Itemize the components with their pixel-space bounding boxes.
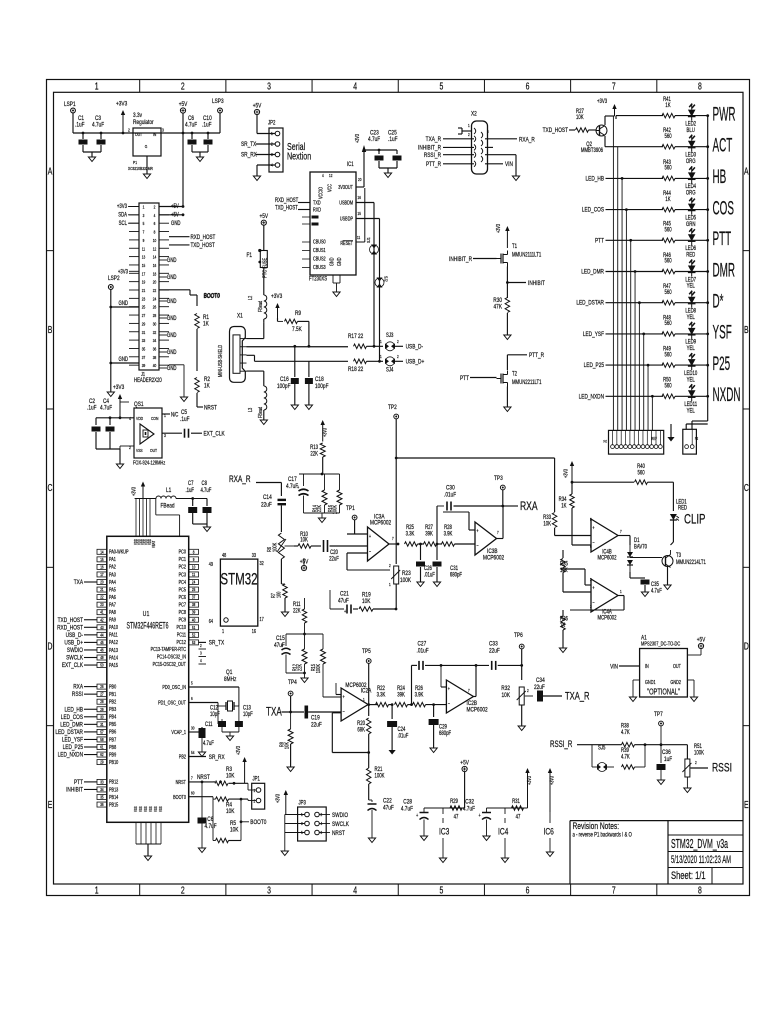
svg-text:TP4: TP4	[288, 679, 297, 686]
svg-text:+: +	[592, 585, 594, 591]
svg-text:SDA: SDA	[118, 212, 127, 219]
svg-text:39: 39	[142, 363, 145, 369]
svg-text:.1uF: .1uF	[75, 122, 85, 129]
svg-text:SR_RX: SR_RX	[209, 754, 225, 761]
svg-text:+3V3: +3V3	[116, 101, 127, 108]
svg-text:+: +	[297, 484, 299, 490]
svg-text:OUT: OUT	[150, 447, 157, 453]
svg-text:560: 560	[664, 133, 671, 140]
svg-text:C16: C16	[280, 376, 289, 383]
svg-text:TXA: TXA	[266, 706, 282, 719]
svg-text:LED_DMR: LED_DMR	[581, 269, 604, 276]
svg-text:INHIBIT: INHIBIT	[528, 280, 545, 287]
svg-text:PB12: PB12	[109, 779, 119, 785]
svg-text:21: 21	[142, 287, 145, 293]
svg-text:100K: 100K	[694, 750, 704, 757]
svg-text:IC2A: IC2A	[361, 688, 372, 695]
svg-text:58: 58	[100, 737, 103, 742]
svg-text:IC1: IC1	[347, 161, 354, 168]
svg-text:GND: GND	[336, 257, 342, 266]
svg-text:C: C	[48, 482, 53, 494]
svg-text:2: 2	[527, 689, 529, 694]
svg-text:PA1: PA1	[109, 557, 116, 563]
svg-text:T2: T2	[512, 371, 517, 378]
svg-text:PTT: PTT	[595, 238, 604, 245]
svg-text:8: 8	[698, 80, 702, 92]
svg-text:.1uF: .1uF	[186, 487, 195, 494]
svg-text:PC14-OSC32_IN: PC14-OSC32_IN	[157, 654, 186, 660]
svg-text:3: 3	[590, 605, 592, 610]
svg-text:PC3: PC3	[179, 572, 187, 578]
svg-text:D*: D*	[713, 291, 724, 312]
svg-text:40: 40	[192, 618, 195, 623]
svg-text:10K: 10K	[230, 827, 239, 834]
svg-text:10K: 10K	[226, 808, 235, 815]
svg-text:560: 560	[664, 383, 671, 390]
svg-text:MCP6002: MCP6002	[370, 520, 391, 527]
svg-text:2: 2	[389, 564, 391, 569]
svg-text:PB10: PB10	[109, 759, 119, 765]
svg-text:9: 9	[193, 557, 195, 562]
svg-text:.01uF: .01uF	[417, 648, 429, 655]
svg-text:29: 29	[142, 321, 145, 327]
svg-text:44: 44	[100, 633, 103, 638]
svg-text:NXDN: NXDN	[713, 385, 741, 406]
svg-text:L3: L3	[247, 407, 253, 412]
svg-text:SJ2: SJ2	[383, 276, 389, 282]
svg-text:ORG: ORG	[686, 158, 696, 165]
svg-text:3.3K: 3.3K	[377, 692, 386, 699]
svg-text:C33: C33	[489, 641, 498, 648]
svg-text:10pF: 10pF	[210, 711, 220, 718]
svg-text:36: 36	[153, 346, 156, 352]
svg-text:SJ3: SJ3	[386, 332, 393, 339]
svg-text:VSS: VSS	[144, 806, 149, 812]
svg-text:1: 1	[389, 583, 391, 588]
svg-text:21: 21	[100, 588, 103, 593]
svg-text:YEL: YEL	[687, 345, 695, 352]
svg-text:CBUS0: CBUS0	[313, 239, 326, 245]
svg-text:INHIBIT_R: INHIBIT_R	[418, 145, 441, 152]
svg-text:22uF: 22uF	[534, 684, 545, 691]
svg-text:20: 20	[153, 279, 156, 285]
svg-text:NRST: NRST	[176, 779, 186, 785]
svg-text:22K: 22K	[293, 608, 301, 615]
svg-text:10K: 10K	[543, 521, 551, 528]
svg-text:3V3OUT: 3V3OUT	[338, 184, 353, 190]
svg-text:.01uF: .01uF	[444, 492, 456, 499]
svg-text:B: B	[48, 324, 53, 336]
svg-text:FT230XS: FT230XS	[309, 276, 327, 283]
svg-text:VSS: VSS	[159, 806, 164, 812]
svg-text:VCCIO: VCCIO	[318, 187, 324, 199]
svg-text:BLU: BLU	[687, 127, 695, 134]
svg-text:4.7uF: 4.7uF	[92, 122, 104, 129]
svg-text:CBUS3: CBUS3	[313, 264, 326, 270]
svg-text:GND: GND	[167, 365, 177, 372]
svg-text:1: 1	[95, 884, 99, 896]
svg-text:4.7uF: 4.7uF	[185, 122, 197, 129]
svg-text:10K: 10K	[576, 114, 584, 121]
svg-text:Revision Notes:: Revision Notes:	[573, 821, 620, 831]
svg-text:PC9: PC9	[179, 617, 187, 623]
svg-text:USB_D-: USB_D-	[66, 632, 83, 639]
svg-text:C22: C22	[383, 798, 392, 805]
svg-text:3.9K: 3.9K	[444, 531, 453, 538]
svg-text:E: E	[744, 799, 749, 811]
svg-text:J2: J2	[603, 440, 608, 443]
svg-text:62: 62	[100, 753, 103, 758]
svg-text:+: +	[416, 812, 418, 818]
svg-text:LED_HB: LED_HB	[586, 176, 605, 183]
svg-text:7: 7	[392, 537, 394, 542]
svg-text:TXD: TXD	[313, 200, 321, 206]
svg-text:−: −	[592, 600, 594, 606]
svg-text:47uF: 47uF	[338, 598, 349, 605]
svg-text:12: 12	[153, 246, 156, 252]
svg-text:PA13: PA13	[109, 647, 118, 653]
svg-text:R31: R31	[512, 798, 520, 805]
svg-text:GND: GND	[171, 220, 181, 227]
svg-text:2: 2	[590, 578, 592, 583]
svg-text:30: 30	[100, 715, 103, 720]
svg-text:42: 42	[100, 618, 103, 623]
svg-text:10K: 10K	[284, 741, 291, 749]
svg-text:LED_P25: LED_P25	[63, 744, 84, 751]
svg-text:PTT_R: PTT_R	[426, 161, 441, 168]
svg-text:LED_DSTAR: LED_DSTAR	[576, 300, 604, 307]
svg-text:+: +	[281, 642, 283, 648]
svg-text:EXT_CLK: EXT_CLK	[62, 662, 83, 669]
svg-text:22: 22	[153, 287, 156, 293]
svg-text:PC7: PC7	[179, 602, 187, 608]
svg-text:LSP2: LSP2	[108, 275, 120, 282]
svg-text:27: 27	[100, 692, 103, 697]
svg-text:.1uF: .1uF	[180, 416, 190, 423]
svg-text:2: 2	[254, 799, 256, 804]
svg-text:2: 2	[181, 884, 185, 896]
svg-text:6: 6	[526, 884, 530, 896]
svg-text:1: 1	[254, 789, 256, 794]
svg-text:GND: GND	[167, 332, 177, 339]
svg-text:6: 6	[590, 545, 592, 550]
svg-text:5: 5	[439, 80, 443, 92]
svg-text:PC4: PC4	[179, 579, 187, 585]
svg-text:34: 34	[100, 787, 103, 792]
svg-text:PC1: PC1	[179, 557, 187, 563]
svg-text:G: G	[145, 143, 148, 149]
svg-text:+: +	[369, 533, 371, 539]
svg-text:8MHz: 8MHz	[224, 676, 236, 683]
svg-text:PD1_OSC_OUT: PD1_OSC_OUT	[158, 700, 186, 706]
svg-text:MCP6002: MCP6002	[483, 555, 504, 562]
svg-text:4: 4	[322, 174, 324, 179]
svg-text:X2: X2	[471, 111, 477, 118]
svg-text:20: 20	[100, 580, 103, 585]
svg-text:PA0-WKUP: PA0-WKUP	[109, 549, 129, 555]
svg-text:JP2: JP2	[268, 120, 275, 127]
svg-text:PB14: PB14	[109, 794, 119, 800]
svg-text:5: 5	[191, 681, 193, 686]
svg-text:.1uF: .1uF	[87, 405, 97, 412]
svg-text:PB2: PB2	[109, 699, 117, 705]
svg-text:68K: 68K	[357, 727, 365, 734]
svg-text:R32: R32	[501, 685, 510, 692]
svg-text:GND: GND	[167, 298, 177, 305]
svg-text:PTC FUSE: PTC FUSE	[262, 257, 269, 278]
svg-text:+3V3: +3V3	[235, 746, 241, 755]
svg-text:22K: 22K	[316, 504, 323, 512]
svg-text:HEADER2X20: HEADER2X20	[134, 377, 162, 384]
svg-text:2: 2	[397, 340, 399, 345]
svg-text:560: 560	[637, 470, 644, 477]
svg-text:LED_COS: LED_COS	[61, 714, 83, 721]
svg-text:560: 560	[664, 165, 671, 172]
svg-text:LED_P25: LED_P25	[584, 362, 605, 369]
svg-text:49: 49	[100, 656, 103, 661]
svg-text:16: 16	[252, 628, 257, 634]
svg-text:22K: 22K	[310, 451, 318, 458]
svg-text:3.3v: 3.3v	[133, 112, 142, 119]
svg-text:39K: 39K	[425, 531, 433, 538]
svg-text:+: +	[344, 608, 346, 614]
svg-text:CBUS1: CBUS1	[313, 247, 326, 253]
svg-text:+3V3: +3V3	[113, 384, 124, 391]
svg-text:+3V3: +3V3	[495, 224, 501, 233]
svg-text:SJ1: SJ1	[365, 237, 371, 243]
svg-text:TXA: TXA	[74, 579, 83, 586]
svg-text:SR_TX: SR_TX	[241, 141, 256, 148]
svg-text:RESET: RESET	[340, 240, 353, 246]
svg-text:32: 32	[260, 560, 265, 566]
svg-text:CON: CON	[151, 415, 158, 421]
svg-text:PB0: PB0	[109, 684, 117, 690]
svg-text:40: 40	[153, 363, 156, 369]
svg-text:35: 35	[100, 795, 103, 800]
svg-text:GND: GND	[167, 274, 177, 281]
svg-text:VSS: VSS	[134, 806, 139, 812]
svg-text:1K: 1K	[561, 503, 567, 510]
svg-text:4.7uF: 4.7uF	[205, 823, 217, 830]
svg-text:TXA_R: TXA_R	[426, 136, 441, 143]
svg-text:49: 49	[209, 561, 214, 567]
svg-text:8: 8	[698, 884, 702, 896]
svg-text:11: 11	[357, 236, 360, 241]
svg-text:PC12: PC12	[176, 640, 186, 646]
svg-text:XC6210B332MR: XC6210B332MR	[128, 165, 153, 171]
svg-text:25: 25	[192, 588, 195, 593]
svg-text:1K: 1K	[204, 383, 210, 390]
svg-text:PC13-TAMPER-RTC: PC13-TAMPER-RTC	[151, 646, 187, 652]
svg-text:20: 20	[358, 178, 361, 183]
svg-text:VIN: VIN	[610, 664, 618, 671]
svg-text:P25: P25	[713, 354, 731, 375]
svg-text:33: 33	[252, 552, 257, 558]
svg-text:TP3: TP3	[494, 475, 503, 482]
svg-text:2: 2	[397, 355, 399, 360]
svg-text:L1: L1	[166, 487, 171, 494]
svg-text:17: 17	[142, 271, 145, 277]
svg-text:13: 13	[142, 254, 145, 260]
svg-text:RSSI: RSSI	[712, 761, 732, 775]
svg-text:PA7: PA7	[109, 602, 116, 608]
svg-text:+: +	[476, 528, 478, 534]
svg-text:LSP3: LSP3	[212, 98, 224, 105]
svg-text:IC6: IC6	[544, 826, 555, 836]
svg-text:+5V: +5V	[179, 101, 188, 108]
svg-text:OUT: OUT	[135, 131, 142, 137]
svg-text:39K: 39K	[397, 692, 405, 699]
svg-text:CLIP: CLIP	[684, 511, 705, 527]
svg-text:+: +	[479, 812, 481, 818]
svg-text:+3V3: +3V3	[354, 134, 360, 143]
svg-text:33: 33	[142, 337, 145, 343]
svg-text:LSP1: LSP1	[64, 101, 76, 108]
svg-text:PA10: PA10	[109, 624, 118, 630]
svg-text:R23: R23	[402, 570, 411, 577]
svg-text:C21: C21	[340, 591, 349, 598]
svg-text:GRN: GRN	[686, 221, 696, 228]
svg-text:MMBT3906: MMBT3906	[581, 147, 603, 154]
svg-text:22uF: 22uF	[329, 556, 339, 563]
svg-text:GND: GND	[119, 356, 129, 363]
svg-text:33: 33	[100, 780, 103, 785]
svg-text:Regulator: Regulator	[133, 119, 154, 126]
svg-text:560: 560	[664, 227, 671, 234]
svg-text:41: 41	[100, 610, 103, 615]
svg-text:LED_DSTAR: LED_DSTAR	[55, 729, 83, 736]
svg-text:1: 1	[620, 590, 622, 595]
svg-text:+3V3: +3V3	[118, 269, 128, 276]
svg-text:TP2: TP2	[388, 404, 397, 411]
svg-text:VCAP_1: VCAP_1	[171, 729, 186, 735]
svg-text:BOOT0: BOOT0	[173, 794, 186, 800]
svg-text:MINI-USB-SHIELD: MINI-USB-SHIELD	[217, 344, 223, 377]
svg-text:6: 6	[526, 80, 530, 92]
svg-text:25: 25	[142, 304, 145, 310]
svg-text:48: 48	[222, 552, 227, 558]
svg-text:RSSI_R: RSSI_R	[424, 152, 441, 159]
svg-text:PC15-OSC32_OUT: PC15-OSC32_OUT	[153, 661, 186, 667]
svg-text:GND: GND	[329, 257, 335, 266]
svg-text:3: 3	[267, 884, 271, 896]
svg-text:N/C: N/C	[171, 412, 179, 419]
svg-text:VIN: VIN	[505, 161, 513, 168]
svg-text:1: 1	[380, 355, 382, 360]
svg-text:1: 1	[380, 340, 382, 345]
svg-text:30: 30	[191, 726, 194, 731]
svg-text:12: 12	[329, 174, 332, 179]
svg-text:22uF: 22uF	[261, 502, 272, 509]
svg-text:18: 18	[153, 271, 156, 277]
svg-text:TXD_HOST: TXD_HOST	[58, 617, 84, 624]
svg-text:PB5: PB5	[109, 722, 117, 728]
svg-text:PB2: PB2	[179, 754, 187, 760]
svg-text:54: 54	[191, 751, 194, 756]
svg-text:NRST: NRST	[204, 405, 217, 412]
svg-text:QS1: QS1	[134, 401, 144, 408]
svg-text:5: 5	[590, 518, 592, 523]
svg-text:PB6: PB6	[109, 729, 117, 735]
svg-text:1: 1	[222, 628, 224, 634]
svg-text:X1: X1	[237, 313, 243, 320]
svg-text:22: 22	[100, 595, 103, 600]
svg-text:31: 31	[142, 329, 145, 335]
svg-text:+3V3: +3V3	[117, 203, 127, 210]
svg-text:47: 47	[454, 814, 459, 821]
svg-text:680pF: 680pF	[439, 730, 451, 737]
svg-text:31: 31	[100, 722, 103, 727]
svg-text:+: +	[448, 686, 450, 692]
svg-text:RED: RED	[686, 252, 695, 259]
svg-text:RSSI_R: RSSI_R	[550, 739, 573, 749]
svg-text:4.7K: 4.7K	[621, 754, 630, 761]
svg-text:17: 17	[100, 572, 103, 577]
svg-text:3: 3	[143, 212, 145, 218]
svg-text:RXD_HOST: RXD_HOST	[275, 197, 299, 204]
svg-text:MCP6002: MCP6002	[467, 707, 488, 714]
svg-text:SR_RX: SR_RX	[241, 152, 257, 159]
svg-text:OUT: OUT	[673, 663, 681, 669]
svg-text:TP5: TP5	[362, 648, 371, 655]
svg-text:C17: C17	[288, 476, 297, 483]
svg-text:22K: 22K	[297, 663, 304, 671]
svg-text:PB15: PB15	[109, 802, 119, 808]
svg-text:R17 22: R17 22	[348, 333, 363, 340]
svg-text:PC8: PC8	[179, 609, 187, 615]
svg-text:3: 3	[200, 651, 202, 656]
svg-text:10K: 10K	[502, 692, 511, 699]
svg-text:COS: COS	[713, 198, 734, 219]
svg-text:15: 15	[100, 557, 103, 562]
svg-text:+5V: +5V	[697, 637, 706, 644]
svg-text:PB8: PB8	[109, 744, 117, 750]
svg-text:STM32F446RET6: STM32F446RET6	[127, 621, 169, 631]
svg-text:NRST: NRST	[197, 774, 210, 781]
svg-text:SWCLK: SWCLK	[66, 655, 83, 662]
svg-text:14: 14	[100, 550, 103, 555]
svg-text:16: 16	[358, 196, 361, 201]
svg-text:VCC: VCC	[327, 183, 333, 192]
svg-text:1K: 1K	[665, 102, 671, 109]
svg-text:VSS: VSS	[154, 806, 159, 812]
svg-text:SJ4: SJ4	[386, 367, 393, 374]
svg-text:GND: GND	[167, 349, 177, 356]
svg-text:C5: C5	[181, 409, 188, 416]
svg-text:YSF: YSF	[713, 322, 732, 343]
svg-text:IC3: IC3	[439, 826, 450, 836]
svg-text:FBead: FBead	[257, 406, 263, 418]
svg-text:1K: 1K	[665, 196, 671, 203]
svg-text:4.7uF: 4.7uF	[201, 487, 212, 494]
svg-text:+3V3: +3V3	[322, 428, 328, 437]
svg-text:PD0_OSC_IN: PD0_OSC_IN	[162, 684, 186, 690]
svg-text:C32: C32	[465, 799, 474, 806]
svg-text:35: 35	[142, 346, 145, 352]
svg-text:45: 45	[100, 640, 103, 645]
svg-text:JP1: JP1	[253, 776, 260, 783]
svg-text:PB7: PB7	[109, 737, 117, 743]
svg-text:PC0: PC0	[179, 549, 187, 555]
svg-text:60: 60	[191, 791, 194, 796]
svg-text:10: 10	[153, 237, 156, 243]
svg-text:10pF: 10pF	[243, 711, 253, 718]
svg-text:10: 10	[192, 565, 195, 570]
svg-text:680pF: 680pF	[450, 572, 462, 579]
svg-text:28: 28	[153, 312, 156, 318]
svg-text:10K: 10K	[362, 598, 371, 605]
svg-text:U1: U1	[143, 610, 150, 618]
